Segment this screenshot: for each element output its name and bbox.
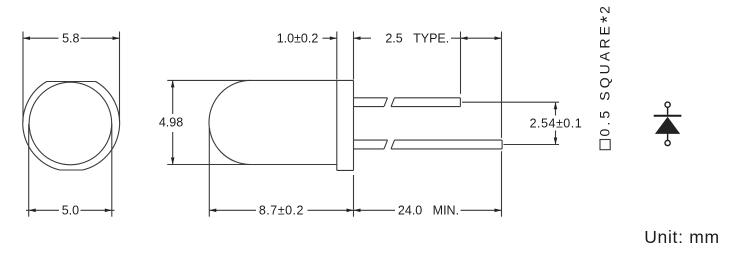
svg-text:8.7±0.2: 8.7±0.2 <box>259 204 304 218</box>
svg-text:5.8: 5.8 <box>62 32 79 46</box>
svg-text:24.0 MIN.: 24.0 MIN. <box>398 204 459 218</box>
svg-text:0.5 SQUARE*2: 0.5 SQUARE*2 <box>597 3 618 137</box>
svg-text:Unit: mm: Unit: mm <box>644 227 720 247</box>
svg-text:2.5 TYPE.: 2.5 TYPE. <box>385 31 449 45</box>
svg-text:2.54±0.1: 2.54±0.1 <box>530 116 583 130</box>
svg-text:4.98: 4.98 <box>159 116 183 130</box>
svg-text:1.0±0.2: 1.0±0.2 <box>277 32 319 46</box>
svg-text:5.0: 5.0 <box>62 204 79 218</box>
